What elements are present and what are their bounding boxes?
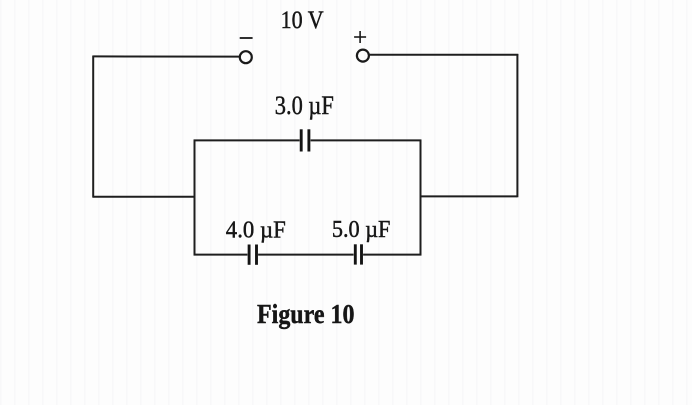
wire inner box bottom segment 1 bbox=[194, 254, 248, 256]
svg-text:10 V: 10 V bbox=[281, 5, 324, 34]
wire inner box top right segment bbox=[311, 139, 422, 141]
wire inner box top left segment bbox=[194, 139, 300, 141]
terminal circle negative bbox=[240, 51, 252, 63]
svg-text:5.0 µF: 5.0 µF bbox=[332, 217, 391, 243]
wire left vertical bbox=[92, 56, 94, 198]
minus sign bbox=[240, 37, 253, 39]
wire right top bbox=[370, 54, 519, 56]
wire right vertical bbox=[516, 54, 518, 197]
wire inner box bottom segment 3 bbox=[363, 254, 421, 256]
capacitor 3.0uF plates bbox=[301, 129, 309, 151]
svg-text:Figure 10: Figure 10 bbox=[257, 298, 355, 329]
wire inner box right edge bbox=[420, 140, 422, 256]
wire left bottom bbox=[93, 196, 195, 198]
capacitor 5.0uF plates bbox=[355, 244, 361, 264]
wire right bottom bbox=[420, 195, 518, 197]
terminal circle positive bbox=[357, 50, 369, 62]
wire inner box left edge bbox=[194, 140, 196, 256]
plus sign bbox=[354, 31, 366, 43]
svg-text:3.0 µF: 3.0 µF bbox=[275, 91, 334, 120]
wire left top bbox=[93, 55, 239, 57]
svg-text:4.0 µF: 4.0 µF bbox=[226, 217, 286, 244]
capacitor 4.0uF plates bbox=[249, 245, 256, 265]
wire inner box bottom segment 2 bbox=[258, 254, 354, 256]
